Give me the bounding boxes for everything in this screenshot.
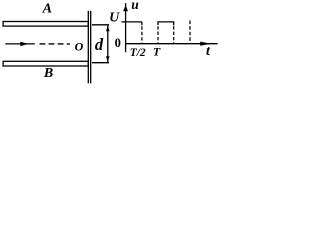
pulse 2 left stub xyxy=(157,22,159,25)
svg-text:U: U xyxy=(109,11,120,26)
dimension arrow d (double-headed) xyxy=(107,25,109,62)
svg-text:u: u xyxy=(131,0,139,12)
extension line top (for d) xyxy=(92,24,109,26)
plate B (bottom deflection plate) xyxy=(3,61,88,66)
pulse 2 right stub xyxy=(173,22,175,26)
extension line bottom (for d) xyxy=(92,62,109,64)
plate A (top deflection plate) xyxy=(3,22,88,27)
pulse 2 dashed left edge at T xyxy=(157,26,159,44)
svg-text:T/2: T/2 xyxy=(130,47,146,59)
tick at U on axis xyxy=(122,21,126,23)
svg-text:B: B xyxy=(43,66,53,81)
pulse 1 dashed drop at T/2 xyxy=(141,26,143,43)
pulse 1 falling edge stub xyxy=(141,22,143,25)
svg-text:0: 0 xyxy=(115,36,121,50)
electron beam arrow xyxy=(5,43,34,45)
svg-text:T: T xyxy=(153,45,161,59)
beam dashed trajectory xyxy=(40,43,71,45)
pulse 1 top xyxy=(126,21,142,23)
svg-text:d: d xyxy=(95,35,104,54)
svg-text:O: O xyxy=(75,39,84,53)
t axis (horizontal) xyxy=(126,43,218,45)
pulse 2 dashed right edge at 3T/2 xyxy=(173,26,175,44)
u axis (vertical) xyxy=(125,3,127,52)
svg-text:A: A xyxy=(42,2,52,17)
pulse 3 dashed rising edge at 2T xyxy=(189,21,191,44)
svg-text:t: t xyxy=(206,44,211,59)
wire: double vertical line at right of plates xyxy=(87,11,89,84)
pulse 2 top xyxy=(157,21,174,23)
